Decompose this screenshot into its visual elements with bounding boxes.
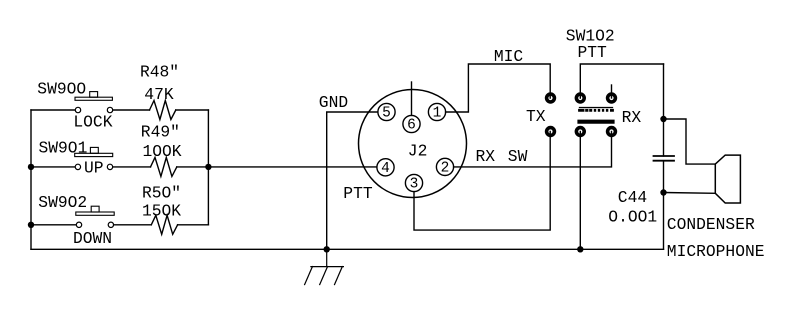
J2 pin 2 <box>436 158 453 175</box>
svg-text:PTT: PTT <box>578 43 608 62</box>
wire riser to ground bus <box>663 193 665 250</box>
svg-text:1OOK: 1OOK <box>143 142 182 161</box>
switch SW102 terminal RX top <box>608 94 616 102</box>
switch SW102 terminal center top <box>576 94 584 102</box>
wire row1 mid <box>113 109 150 111</box>
capacitor C44 <box>654 155 675 157</box>
svg-text:GND: GND <box>319 93 348 112</box>
ground chassis symbol <box>326 249 328 266</box>
svg-text:4: 4 <box>381 161 390 177</box>
svg-text:DOWN: DOWN <box>73 229 112 248</box>
svg-text:SW9O1: SW9O1 <box>39 138 88 157</box>
svg-text:J2: J2 <box>408 142 428 161</box>
switch SW902 plunger <box>91 206 99 212</box>
J2 pin 4 <box>377 159 394 176</box>
resistor R50 <box>151 215 177 234</box>
switch SW102 movable contact line <box>580 107 613 109</box>
wire SW102 center-bottom to ground bus <box>579 132 581 250</box>
wire row3 mid <box>114 224 152 226</box>
svg-text:3: 3 <box>410 177 419 193</box>
J2 pin 5 <box>378 103 395 120</box>
wire MIC net from pin1 <box>446 64 551 112</box>
switch SW102 terminal TX bottom <box>547 128 555 136</box>
svg-text:R5O": R5O" <box>142 183 181 202</box>
switch SW102 terminal TX top <box>547 94 555 102</box>
svg-text:SW: SW <box>508 147 528 166</box>
wire row3 right <box>178 224 209 226</box>
wire microphone top lead <box>664 119 716 164</box>
connector J2 body <box>359 90 467 198</box>
svg-text:C44: C44 <box>618 188 647 207</box>
svg-text:RX: RX <box>476 147 496 166</box>
switch SW900 plunger <box>90 92 98 98</box>
svg-text:6: 6 <box>407 118 416 134</box>
wire row3 left <box>31 224 76 226</box>
wire left rail <box>30 110 32 249</box>
wire SW102 center-top stub to PTT rail <box>580 64 663 98</box>
svg-text:2: 2 <box>441 161 450 177</box>
switch SW102 fixed contact bar <box>580 120 613 124</box>
switch SW102 terminal RX bottom <box>608 128 616 136</box>
junction dot right rail row2 <box>205 164 211 170</box>
wire PTT net pin3 to SW102 <box>414 132 550 231</box>
junction dot ground bus <box>324 246 330 252</box>
switch SW102 terminal center bottom <box>576 128 584 136</box>
condenser microphone body <box>715 155 740 203</box>
svg-text:RX: RX <box>622 108 642 127</box>
J2 pin 1 <box>428 103 445 120</box>
switch SW900 button bar <box>75 97 112 100</box>
svg-text:SW9OO: SW9OO <box>37 79 86 98</box>
svg-text:CONDENSER: CONDENSER <box>667 215 755 234</box>
switch SW901 plunger <box>90 147 98 153</box>
wire pin6 stub <box>411 82 413 115</box>
svg-text:R48": R48" <box>140 63 179 82</box>
switch SW902 contacts <box>76 222 81 227</box>
wire row2 right to J2 pin4 <box>177 166 377 168</box>
switch SW901 button bar <box>75 153 113 156</box>
wire right rail of switch bank <box>207 110 209 225</box>
switch SW900 contacts <box>75 107 80 112</box>
wire right riser top <box>663 64 665 119</box>
junction dot left rail row3 <box>28 222 34 228</box>
J2 pin 6 <box>403 115 420 132</box>
junction dot ground bus SW102 <box>577 246 583 252</box>
svg-text:1: 1 <box>433 106 442 122</box>
svg-text:R49": R49" <box>141 123 180 142</box>
wire row2 left <box>31 166 75 168</box>
wire SW102 RX-top actuator stub <box>611 85 613 98</box>
svg-text:LOCK: LOCK <box>73 112 112 131</box>
svg-text:SW9O2: SW9O2 <box>38 193 87 212</box>
resistor R48 <box>150 101 176 120</box>
wire row1 left <box>31 109 75 111</box>
wire microphone bottom lead <box>664 192 716 195</box>
wire GND from pin5 <box>327 112 378 249</box>
switch SW102 movable contact dashed <box>580 109 613 112</box>
wire to capacitor <box>663 119 665 156</box>
svg-text:5: 5 <box>382 106 391 122</box>
resistor R49 <box>151 157 177 176</box>
wire bottom ground bus <box>31 248 664 250</box>
wire capacitor bottom <box>663 161 665 193</box>
junction dot left rail row2 <box>28 164 34 170</box>
svg-text:15OK: 15OK <box>142 202 181 221</box>
svg-text:PTT: PTT <box>343 184 373 203</box>
svg-text:O.OO1: O.OO1 <box>608 207 657 226</box>
svg-text:MIC: MIC <box>494 47 524 66</box>
junction dot capacitor bottom <box>660 189 666 195</box>
svg-text:UP: UP <box>84 158 104 177</box>
wire row1 right <box>176 109 209 111</box>
svg-text:MICROPHONE: MICROPHONE <box>667 242 765 261</box>
svg-text:TX: TX <box>526 107 546 126</box>
wire RX SW net pin2 to SW102 <box>454 132 612 167</box>
wire row2 mid <box>113 166 151 168</box>
junction dot capacitor top <box>660 116 666 122</box>
switch SW902 button bar <box>76 212 114 215</box>
J2 pin 3 <box>405 174 422 191</box>
switch SW901 contacts <box>75 164 80 169</box>
svg-text:47K: 47K <box>144 85 174 104</box>
